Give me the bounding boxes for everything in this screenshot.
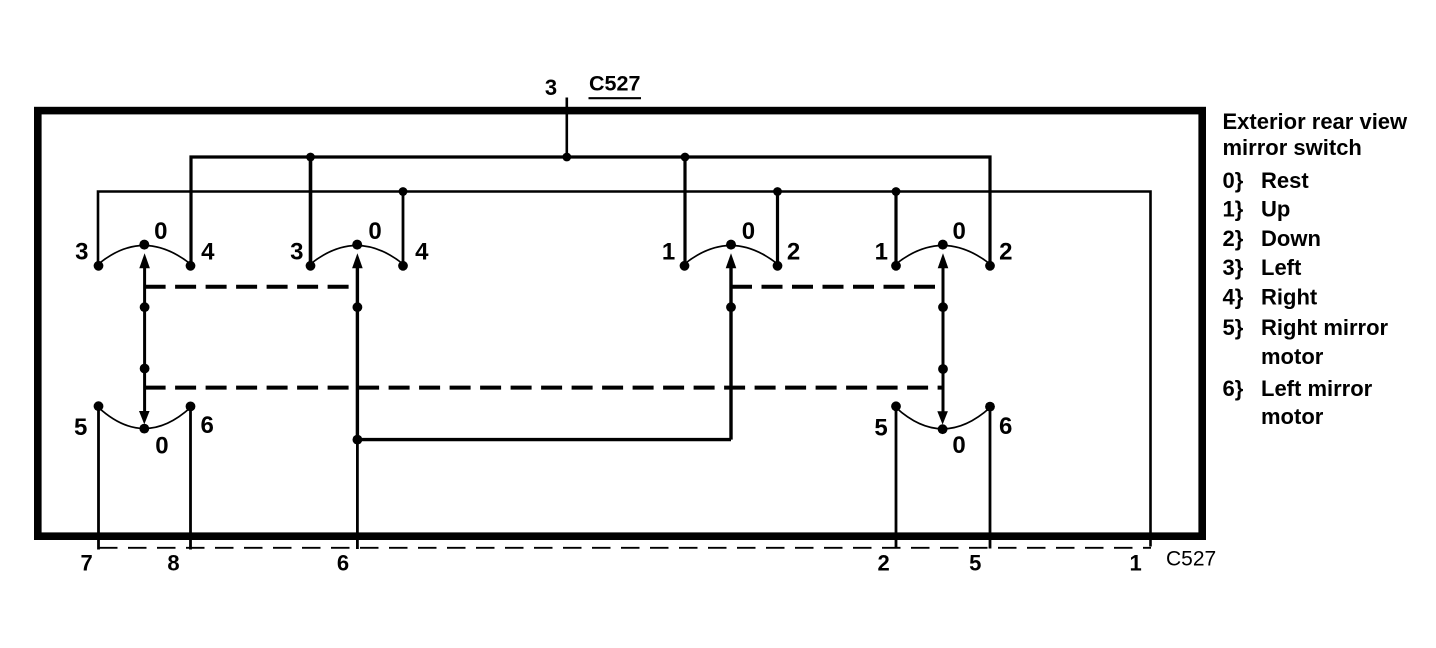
svg-text:1: 1 bbox=[1129, 551, 1141, 576]
wire: pin 7 drop bbox=[97, 408, 100, 550]
svg-text:0: 0 bbox=[952, 432, 965, 459]
right motor switch left contact (5) bbox=[891, 401, 901, 411]
SW3 wiper arrow bbox=[726, 253, 737, 268]
wire: C527 pin 3 drop to upper bus bbox=[565, 98, 568, 158]
right motor switch arc bbox=[896, 408, 990, 429]
SW1 left contact bbox=[94, 261, 104, 271]
svg-text:C527: C527 bbox=[1166, 548, 1216, 571]
switch SW2 arc bbox=[311, 246, 404, 265]
svg-text:Left: Left bbox=[1261, 255, 1302, 280]
svg-text:Down: Down bbox=[1261, 226, 1321, 251]
SW3 left contact bbox=[680, 261, 690, 271]
left motor switch left contact (5) bbox=[94, 401, 104, 411]
svg-text:4: 4 bbox=[201, 239, 215, 266]
SW2 wiper arrow bbox=[352, 253, 363, 268]
left motor switch arc bbox=[99, 408, 191, 429]
junction on SW4 shaft (lower) bbox=[938, 364, 948, 374]
wire: SW3 left contact drop bbox=[683, 157, 686, 262]
down arrow into left motor switch bbox=[139, 411, 150, 424]
SW4 right contact bbox=[985, 261, 995, 271]
junction: upper bus / SW2 left drop bbox=[306, 153, 315, 162]
legend item 2 Down bbox=[1223, 226, 1321, 251]
junction: lower bus / SW2 right drop bbox=[399, 187, 408, 196]
svg-text:Left mirror: Left mirror bbox=[1261, 376, 1373, 401]
legend item 4 Right bbox=[1223, 285, 1318, 310]
wire: SW4 left contact drop bbox=[894, 192, 897, 263]
SW1 actuator shaft bbox=[143, 268, 146, 412]
svg-text:8: 8 bbox=[167, 551, 179, 576]
switch SW3 arc bbox=[685, 246, 778, 265]
svg-text:2: 2 bbox=[877, 551, 889, 576]
SW3 actuator shaft bbox=[729, 268, 732, 440]
SW3 pivot bbox=[726, 240, 736, 250]
junction on SW1 shaft (lower) bbox=[140, 364, 150, 374]
SW1 wiper arrow bbox=[139, 253, 150, 268]
dashed gang link SW3-SW4 bbox=[731, 285, 943, 289]
wire: pin 8 drop bbox=[189, 408, 192, 550]
svg-text:1: 1 bbox=[662, 239, 675, 266]
right motor switch center contact bbox=[938, 424, 948, 434]
wire: lower bus bbox=[98, 192, 1151, 547]
svg-text:2: 2 bbox=[787, 239, 800, 266]
legend item 5 Right mirror motor bbox=[1223, 315, 1389, 369]
svg-text:3: 3 bbox=[290, 239, 303, 266]
svg-text:1: 1 bbox=[875, 239, 888, 266]
SW1 pivot bbox=[139, 240, 149, 250]
junction on SW2 shaft bbox=[353, 302, 363, 312]
junction: upper bus / SW3 left drop bbox=[681, 153, 690, 162]
svg-text:5: 5 bbox=[874, 415, 887, 442]
svg-text:Exterior rear view: Exterior rear view bbox=[1223, 109, 1409, 134]
svg-text:Right: Right bbox=[1261, 285, 1318, 310]
legend item 1 Up bbox=[1223, 197, 1291, 222]
svg-text:5: 5 bbox=[74, 414, 87, 441]
svg-text:0: 0 bbox=[155, 432, 168, 459]
junction on SW3 shaft bbox=[726, 302, 736, 312]
svg-text:2}: 2} bbox=[1223, 226, 1244, 251]
svg-text:0: 0 bbox=[742, 218, 755, 245]
svg-text:Right mirror: Right mirror bbox=[1261, 315, 1389, 340]
legend item 6 Left mirror motor bbox=[1223, 376, 1373, 429]
junction: pin3 wire / upper bus bbox=[562, 153, 571, 162]
svg-text:mirror switch: mirror switch bbox=[1223, 135, 1362, 160]
svg-text:5: 5 bbox=[969, 551, 981, 576]
SW2 right contact bbox=[398, 261, 408, 271]
svg-text:2: 2 bbox=[999, 239, 1012, 266]
svg-text:6: 6 bbox=[999, 413, 1012, 440]
dashed gang link lower (full width) bbox=[145, 386, 943, 390]
SW4 left contact bbox=[891, 261, 901, 271]
junction at SW2 shaft corner bbox=[353, 435, 363, 445]
wire: pin 6 drop bbox=[356, 440, 359, 549]
SW3 right contact bbox=[773, 261, 783, 271]
svg-text:1}: 1} bbox=[1223, 197, 1244, 222]
svg-text:6: 6 bbox=[337, 551, 349, 576]
svg-text:6: 6 bbox=[201, 412, 214, 439]
wire: SW2 left contact drop bbox=[309, 157, 313, 262]
svg-text:4: 4 bbox=[415, 239, 429, 266]
svg-text:4}: 4} bbox=[1223, 285, 1244, 310]
SW2 actuator shaft bbox=[356, 268, 359, 440]
svg-text:0: 0 bbox=[368, 218, 381, 245]
legend item 0 Rest bbox=[1223, 168, 1310, 193]
svg-text:C527: C527 bbox=[589, 72, 640, 96]
svg-text:5}: 5} bbox=[1223, 315, 1244, 340]
svg-text:Rest: Rest bbox=[1261, 168, 1309, 193]
connector C527 (top) bbox=[589, 72, 642, 99]
svg-text:motor: motor bbox=[1261, 404, 1324, 429]
right motor switch right contact (6) bbox=[985, 402, 995, 412]
junction: lower bus / SW4 left drop bbox=[892, 187, 901, 196]
svg-text:0}: 0} bbox=[1223, 168, 1244, 193]
SW2 pivot bbox=[352, 240, 362, 250]
switch body outline bbox=[38, 111, 1202, 537]
switch SW4 arc bbox=[896, 246, 990, 265]
SW4 wiper arrow bbox=[938, 253, 949, 268]
junction: lower bus / SW3 right drop bbox=[773, 187, 782, 196]
SW2 left contact bbox=[306, 261, 316, 271]
wire: pin 2 drop bbox=[895, 408, 898, 549]
svg-text:3}: 3} bbox=[1223, 255, 1244, 280]
SW1 right contact bbox=[186, 261, 196, 271]
left motor switch right contact (6) bbox=[186, 402, 196, 412]
svg-text:0: 0 bbox=[154, 218, 167, 245]
wire: pin 5 drop bbox=[989, 408, 992, 549]
svg-text:7: 7 bbox=[80, 551, 92, 576]
wire: SW3 right contact drop bbox=[776, 192, 779, 263]
SW4 actuator shaft bbox=[942, 268, 945, 412]
junction on SW1 shaft (upper) bbox=[140, 302, 150, 312]
down arrow into right motor switch bbox=[937, 411, 948, 424]
wire: SW2 right contact drop bbox=[402, 192, 405, 263]
switch SW1 arc bbox=[99, 246, 191, 265]
svg-text:0: 0 bbox=[953, 218, 966, 245]
SW4 pivot bbox=[938, 240, 948, 250]
wire: upper bus bbox=[191, 157, 990, 262]
junction on SW4 shaft (upper) bbox=[938, 302, 948, 312]
svg-text:motor: motor bbox=[1261, 344, 1324, 369]
svg-text:3: 3 bbox=[75, 239, 88, 266]
svg-text:6}: 6} bbox=[1223, 376, 1244, 401]
svg-text:Up: Up bbox=[1261, 197, 1290, 222]
svg-text:3: 3 bbox=[545, 75, 557, 100]
legend item 3 Left bbox=[1223, 255, 1303, 280]
left motor switch center contact bbox=[139, 424, 149, 434]
dashed gang link SW1-SW2 bbox=[145, 285, 358, 289]
dashed connector line C527 (bottom) bbox=[99, 547, 1151, 549]
wire: SW2 shaft to SW3 shaft cross-link bbox=[357, 438, 731, 441]
